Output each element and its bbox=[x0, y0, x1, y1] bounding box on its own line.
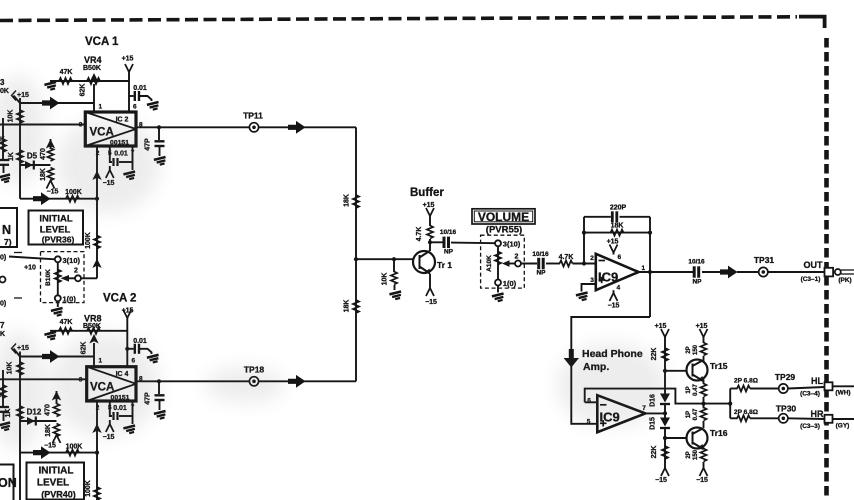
svg-text:Tr16: Tr16 bbox=[710, 428, 728, 438]
svg-text:3(10): 3(10) bbox=[63, 256, 81, 265]
svg-text:62K: 62K bbox=[80, 84, 87, 97]
svg-text:OUT: OUT bbox=[804, 260, 824, 270]
svg-text:10/16: 10/16 bbox=[440, 229, 457, 236]
svg-text:NP: NP bbox=[692, 279, 702, 286]
svg-text:1P: 1P bbox=[686, 386, 692, 393]
svg-text:B50K: B50K bbox=[83, 65, 101, 72]
svg-text:+15: +15 bbox=[122, 308, 134, 315]
svg-text:2P: 2P bbox=[686, 346, 692, 353]
svg-text:100K: 100K bbox=[85, 480, 92, 497]
svg-text:22K: 22K bbox=[651, 446, 658, 459]
svg-text:2: 2 bbox=[515, 254, 519, 261]
svg-text:B50K: B50K bbox=[83, 323, 101, 330]
svg-text:LEVEL: LEVEL bbox=[37, 478, 69, 489]
svg-text:6: 6 bbox=[133, 104, 137, 111]
svg-text:A10K: A10K bbox=[486, 255, 493, 272]
svg-text:1(0): 1(0) bbox=[63, 295, 77, 304]
svg-text:HL: HL bbox=[811, 376, 823, 386]
svg-text:10/16: 10/16 bbox=[688, 259, 705, 266]
svg-text:−15: −15 bbox=[696, 477, 708, 484]
svg-text:4.7K: 4.7K bbox=[559, 254, 574, 261]
svg-text:0): 0) bbox=[0, 301, 6, 308]
svg-text:(C3–4): (C3–4) bbox=[800, 391, 820, 398]
svg-text:TP11: TP11 bbox=[243, 111, 263, 121]
svg-text:1: 1 bbox=[642, 265, 646, 272]
svg-text:0.47: 0.47 bbox=[693, 408, 699, 420]
svg-text:7: 7 bbox=[0, 321, 5, 330]
svg-text:+15: +15 bbox=[423, 202, 435, 209]
svg-text:1: 1 bbox=[99, 104, 103, 111]
svg-text:+15: +15 bbox=[655, 323, 667, 330]
svg-text:B10K: B10K bbox=[45, 269, 52, 286]
svg-text:NP: NP bbox=[444, 249, 454, 256]
svg-text:(GY): (GY) bbox=[836, 423, 850, 430]
svg-text:ON: ON bbox=[0, 476, 17, 490]
svg-text:3(10): 3(10) bbox=[503, 240, 521, 249]
svg-text:470: 470 bbox=[45, 404, 52, 416]
svg-text:2: 2 bbox=[74, 268, 78, 275]
svg-text:(WH): (WH) bbox=[835, 390, 850, 397]
svg-text:(PVR40): (PVR40) bbox=[41, 490, 76, 500]
svg-text:0.47: 0.47 bbox=[693, 384, 699, 396]
svg-text:Tr15: Tr15 bbox=[710, 361, 728, 371]
svg-text:150: 150 bbox=[693, 449, 699, 460]
svg-text:18K: 18K bbox=[611, 223, 624, 230]
svg-text:Tr 1: Tr 1 bbox=[437, 260, 452, 270]
svg-text:2: 2 bbox=[590, 255, 594, 262]
svg-text:4.7K: 4.7K bbox=[416, 227, 423, 242]
svg-text:(PVR36): (PVR36) bbox=[42, 235, 75, 245]
svg-text:+10: +10 bbox=[24, 265, 36, 272]
svg-text:18K: 18K bbox=[344, 300, 351, 313]
svg-text:D15: D15 bbox=[650, 417, 657, 430]
svg-text:IC9: IC9 bbox=[598, 270, 618, 285]
svg-text:K: K bbox=[0, 331, 5, 338]
svg-text:−15: −15 bbox=[608, 303, 620, 310]
svg-text:0.01: 0.01 bbox=[133, 85, 147, 92]
svg-text:(C3–3): (C3–3) bbox=[800, 423, 820, 430]
svg-text:10K: 10K bbox=[382, 273, 389, 286]
svg-text:(PK): (PK) bbox=[838, 277, 851, 284]
svg-text:47K: 47K bbox=[60, 69, 73, 76]
svg-text:TP29: TP29 bbox=[775, 372, 796, 382]
svg-text:−15: −15 bbox=[47, 189, 59, 196]
svg-text:INITIAL: INITIAL bbox=[39, 214, 72, 225]
svg-text:+15: +15 bbox=[607, 239, 619, 246]
svg-text:47K: 47K bbox=[60, 319, 73, 326]
svg-text:6: 6 bbox=[618, 254, 622, 261]
svg-text:150: 150 bbox=[693, 344, 699, 355]
svg-text:N: N bbox=[2, 223, 11, 237]
svg-text:7): 7) bbox=[4, 237, 12, 247]
svg-text:100K: 100K bbox=[66, 444, 83, 451]
svg-text:VCA 2: VCA 2 bbox=[103, 293, 136, 305]
svg-text:18K: 18K bbox=[40, 168, 47, 181]
svg-text:100K: 100K bbox=[85, 232, 92, 249]
svg-text:1P: 1P bbox=[686, 411, 692, 418]
svg-text:HR: HR bbox=[811, 409, 824, 419]
svg-text:+15: +15 bbox=[122, 56, 134, 63]
svg-text:10/16: 10/16 bbox=[532, 251, 549, 258]
svg-text:2P 6.8Ω: 2P 6.8Ω bbox=[734, 409, 758, 416]
svg-text:VOLUME: VOLUME bbox=[478, 210, 529, 224]
svg-text:VR8: VR8 bbox=[84, 314, 102, 324]
svg-text:2P: 2P bbox=[686, 451, 692, 458]
svg-text:VR4: VR4 bbox=[84, 55, 102, 65]
svg-text:0): 0) bbox=[0, 255, 6, 262]
svg-text:−15: −15 bbox=[44, 443, 56, 450]
svg-text:220P: 220P bbox=[610, 205, 627, 212]
svg-text:18K: 18K bbox=[344, 194, 351, 207]
svg-text:TP31: TP31 bbox=[754, 255, 775, 265]
svg-text:TP30: TP30 bbox=[776, 404, 797, 414]
svg-text:Buffer: Buffer bbox=[410, 187, 444, 199]
svg-text:NP: NP bbox=[536, 270, 546, 277]
svg-text:(C3–1): (C3–1) bbox=[801, 276, 821, 283]
svg-text:4: 4 bbox=[617, 285, 621, 292]
svg-text:18K: 18K bbox=[45, 424, 52, 437]
svg-text:+15: +15 bbox=[696, 323, 708, 330]
svg-text:VCA 1: VCA 1 bbox=[85, 36, 119, 48]
svg-text:3: 3 bbox=[590, 277, 594, 284]
svg-text:−15: −15 bbox=[655, 477, 667, 484]
svg-text:2P 6.8Ω: 2P 6.8Ω bbox=[734, 378, 758, 385]
svg-text:(PVR55): (PVR55) bbox=[486, 224, 522, 235]
svg-text:−15: −15 bbox=[425, 299, 437, 306]
svg-text:INITIAL: INITIAL bbox=[39, 466, 74, 477]
svg-text:1(0): 1(0) bbox=[503, 279, 517, 288]
